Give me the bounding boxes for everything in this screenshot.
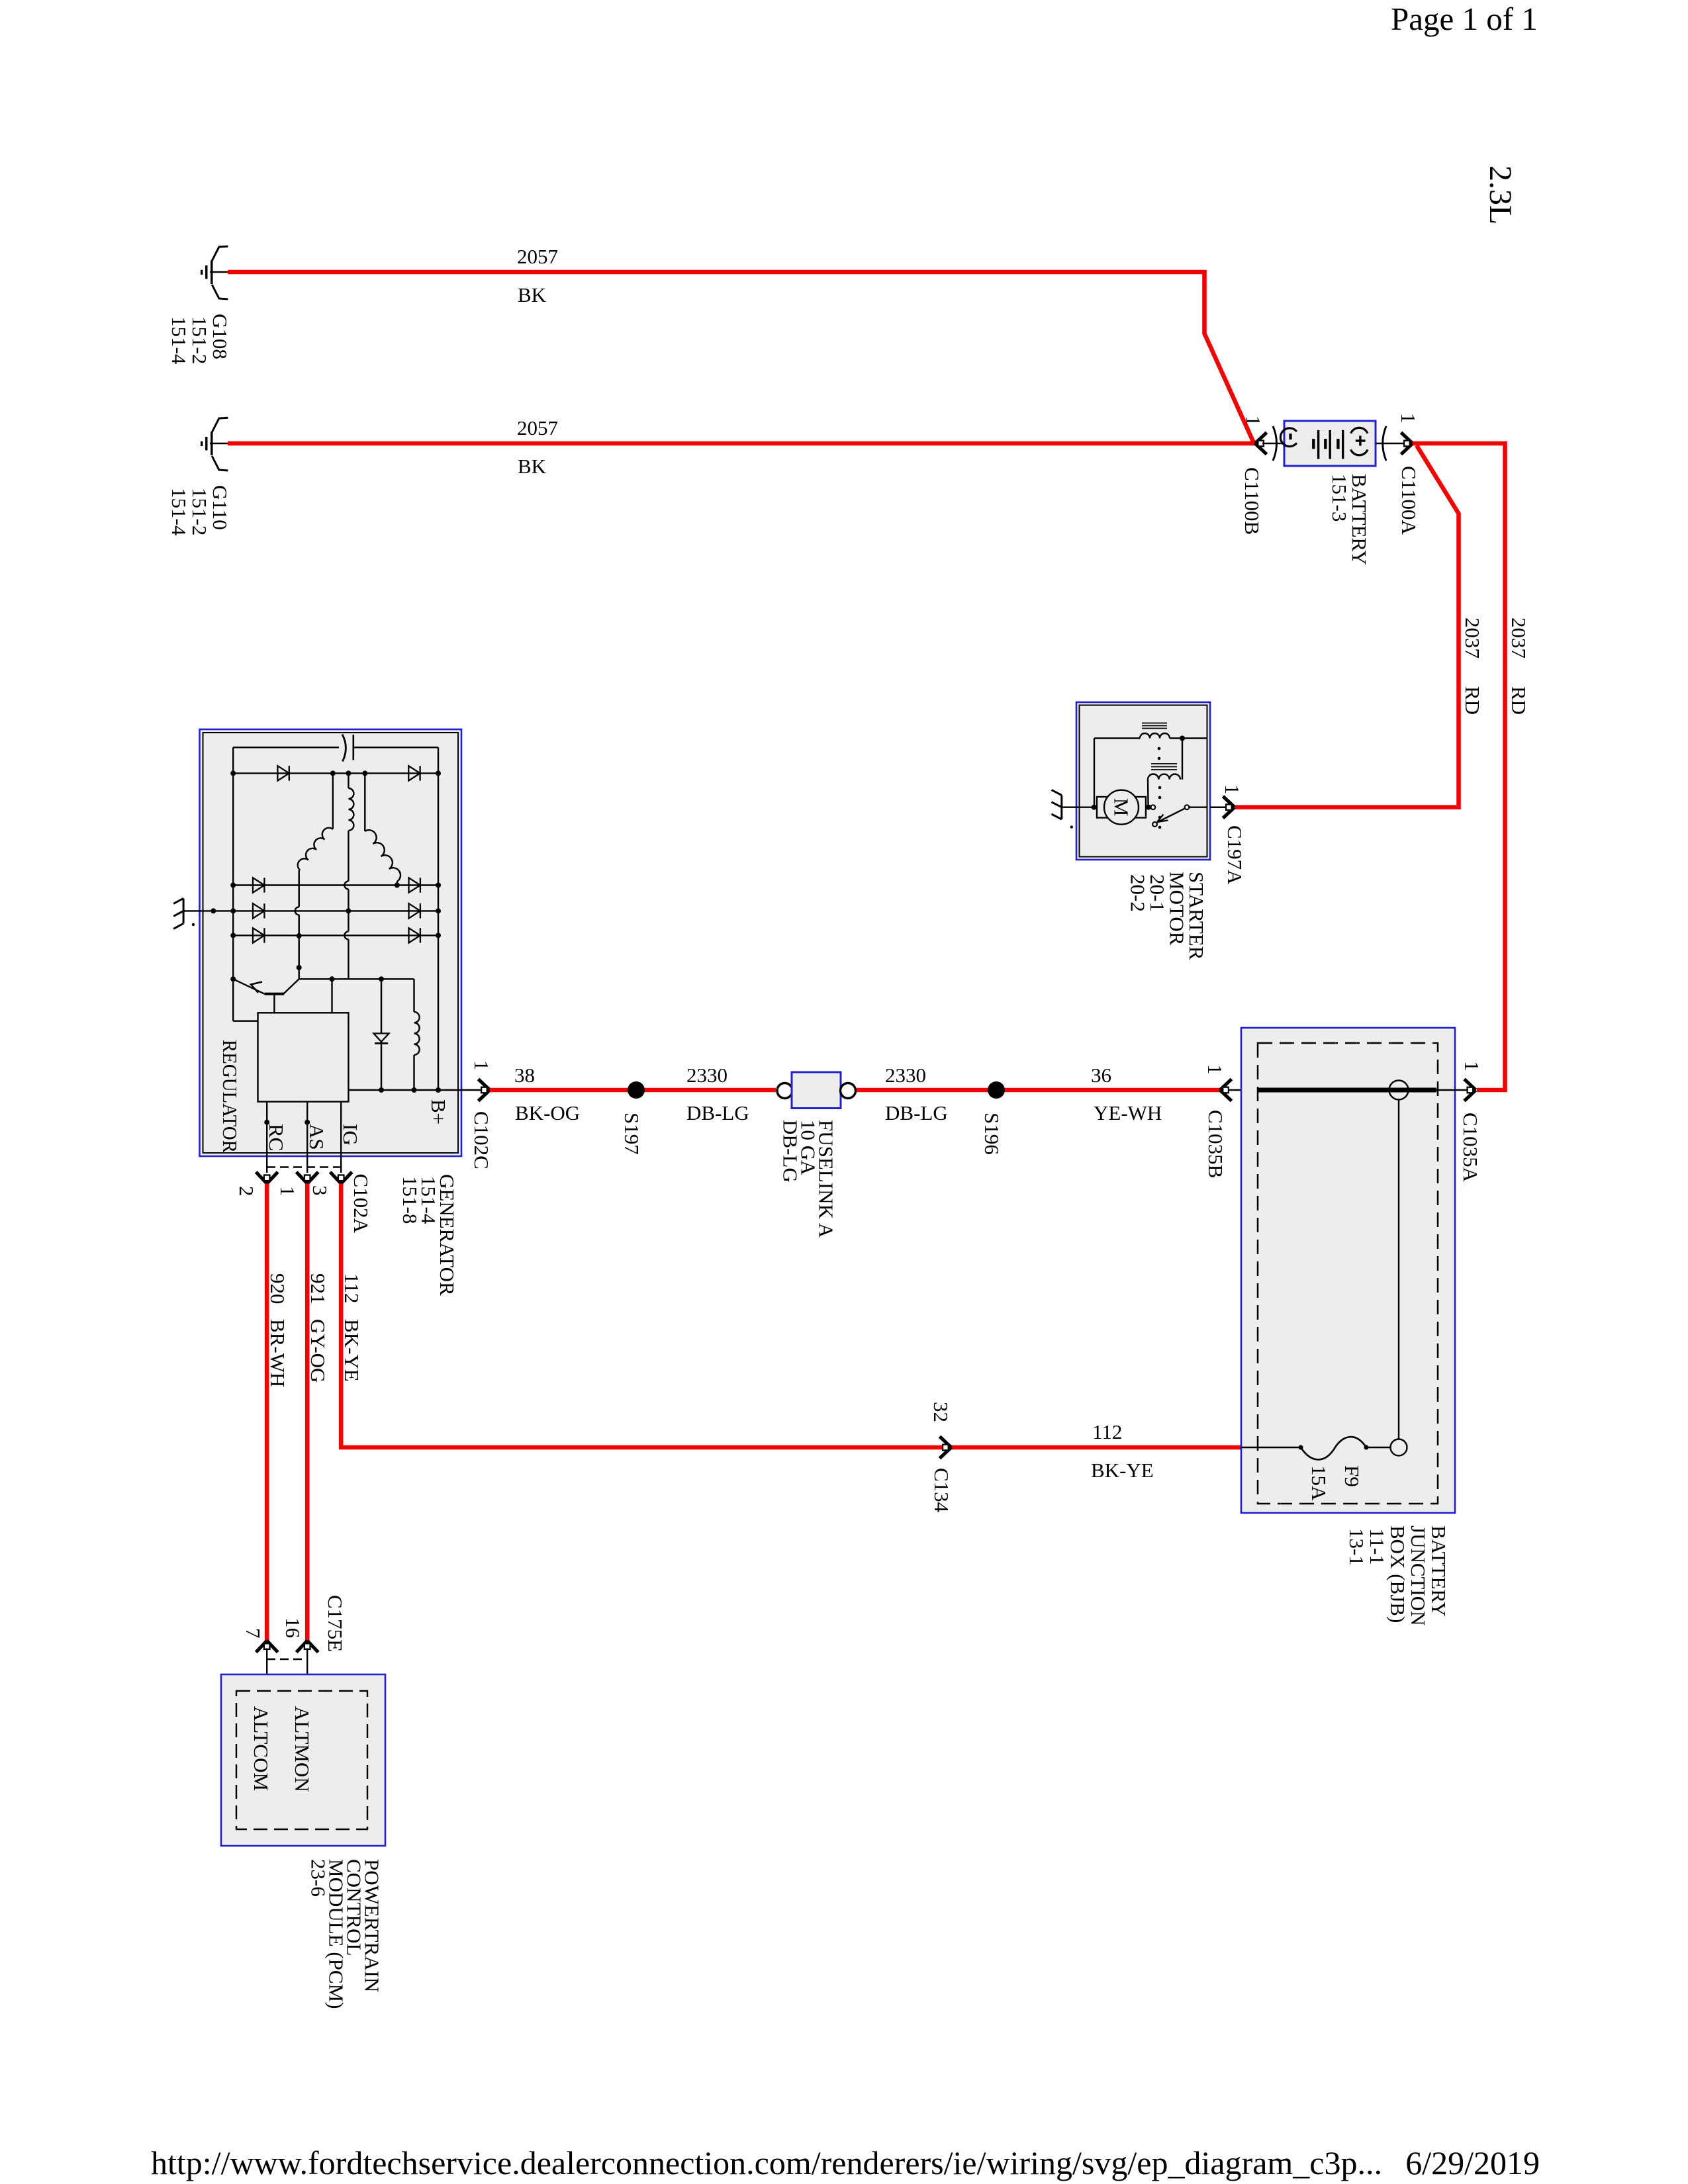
svg-text:2037: 2037 [1507,617,1530,659]
svg-text:S197: S197 [620,1113,643,1155]
svg-text:RC: RC [265,1124,288,1151]
svg-text:2.3L: 2.3L [1483,165,1518,224]
svg-text:1: 1 [1221,784,1244,795]
svg-text:112: 112 [1092,1420,1122,1443]
svg-text:C102A: C102A [350,1174,373,1234]
svg-text:2057: 2057 [517,416,558,439]
svg-text:2037: 2037 [1461,617,1484,659]
svg-text:2057: 2057 [517,245,558,268]
svg-text:BK: BK [518,283,547,306]
svg-text:BR-WH: BR-WH [266,1319,289,1387]
svg-text:C1035B: C1035B [1204,1110,1227,1178]
svg-text:JUNCTION: JUNCTION [1407,1525,1430,1626]
svg-text:2330: 2330 [885,1064,926,1087]
svg-text:1: 1 [1460,1061,1483,1071]
svg-text:C102C: C102C [470,1111,493,1169]
svg-text:BK-YE: BK-YE [340,1319,363,1382]
svg-text:C1100A: C1100A [1397,466,1421,535]
svg-text:F9: F9 [1340,1465,1364,1487]
svg-text:151-4: 151-4 [167,316,191,365]
svg-text:2: 2 [235,1186,258,1197]
svg-text:G110: G110 [209,485,232,530]
svg-text:BK: BK [518,455,547,478]
svg-text:S196: S196 [980,1113,1004,1155]
svg-text:DB-LG: DB-LG [779,1120,802,1183]
svg-text:C197A: C197A [1223,825,1246,885]
svg-text:RD: RD [1507,686,1530,715]
svg-text:Page 1 of 1: Page 1 of 1 [1391,1,1538,37]
svg-text:151-2: 151-2 [188,316,211,364]
svg-text:32: 32 [929,1402,953,1422]
svg-text:23-6: 23-6 [307,1859,330,1897]
svg-text:C1100B: C1100B [1241,467,1264,535]
svg-text:20-2: 20-2 [1127,874,1150,912]
svg-text:DB-LG: DB-LG [885,1101,948,1124]
svg-text:1: 1 [1397,413,1420,424]
svg-text:36: 36 [1091,1064,1111,1087]
svg-text:GY-OG: GY-OG [306,1319,330,1383]
svg-text:112: 112 [340,1273,363,1303]
svg-text:G108: G108 [209,314,232,359]
svg-text:BOX (BJB): BOX (BJB) [1386,1525,1409,1623]
svg-text:13-1: 13-1 [1345,1528,1368,1566]
svg-text:REGULATOR: REGULATOR [218,1040,242,1153]
svg-text:ALTCOM: ALTCOM [250,1706,273,1791]
svg-text:1: 1 [276,1186,299,1197]
svg-text:C1035A: C1035A [1459,1113,1482,1183]
svg-text:BATTERY: BATTERY [1427,1525,1450,1617]
svg-text:M: M [1110,798,1133,817]
svg-text:3: 3 [308,1185,332,1196]
svg-text:YE-WH: YE-WH [1094,1101,1162,1124]
svg-text:BK-OG: BK-OG [515,1101,580,1124]
svg-text:C175E: C175E [324,1595,347,1652]
svg-text:DB-LG: DB-LG [686,1101,749,1124]
svg-text:151-4: 151-4 [167,488,191,536]
svg-text:11-1: 11-1 [1366,1528,1389,1565]
svg-text:7: 7 [242,1628,265,1639]
svg-text:15A: 15A [1307,1465,1331,1501]
svg-text:6/29/2019: 6/29/2019 [1405,2144,1540,2181]
svg-text:RD: RD [1461,686,1484,715]
svg-text:ALTMON: ALTMON [291,1706,314,1792]
svg-text:C134: C134 [930,1468,953,1513]
svg-text:16: 16 [281,1617,305,1638]
svg-text:IG: IG [339,1124,362,1146]
svg-text:1: 1 [1203,1064,1227,1075]
svg-text:AS: AS [305,1124,328,1150]
svg-text:B+: B+ [427,1099,450,1124]
svg-text:151-8: 151-8 [399,1176,422,1224]
svg-text:151-2: 151-2 [188,488,211,535]
svg-text:921: 921 [306,1273,330,1304]
svg-text:1: 1 [1242,416,1265,426]
svg-text:151-3: 151-3 [1328,474,1351,522]
svg-text:38: 38 [514,1064,535,1087]
svg-text:BK-YE: BK-YE [1091,1459,1154,1482]
svg-text:920: 920 [266,1273,289,1304]
svg-text:2330: 2330 [686,1064,727,1087]
svg-text:http://www.fordtechservice.dea: http://www.fordtechservice.dealerconnect… [151,2144,1382,2181]
svg-text:1: 1 [470,1060,493,1071]
